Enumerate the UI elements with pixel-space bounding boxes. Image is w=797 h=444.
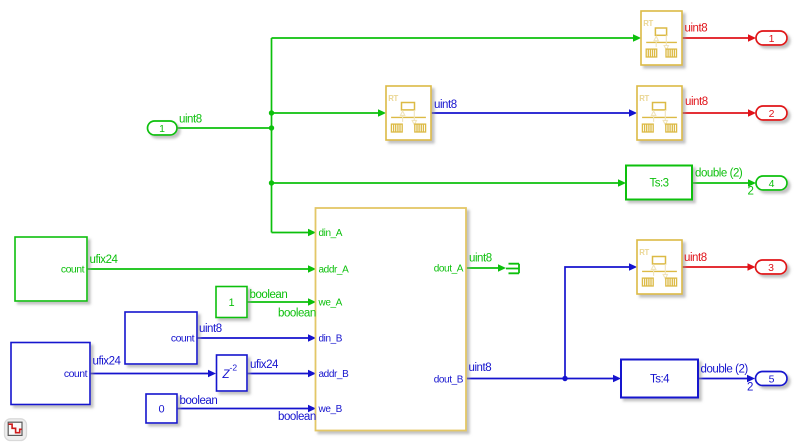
wire: dout_A stub xyxy=(466,267,499,269)
svg-text:ufix24: ufix24 xyxy=(93,356,122,368)
output port 4 oval xyxy=(756,176,787,190)
svg-text:boolean: boolean xyxy=(278,411,316,423)
svg-text:uint8: uint8 xyxy=(179,114,202,126)
svg-text:2: 2 xyxy=(769,108,775,120)
output port 5 oval xyxy=(756,372,788,386)
svg-text:uint8: uint8 xyxy=(469,362,492,374)
svg-text:1: 1 xyxy=(769,33,775,45)
svg-text:double (2): double (2) xyxy=(701,364,749,376)
svg-text:addr_B: addr_B xyxy=(319,369,350,380)
svg-text:boolean: boolean xyxy=(180,395,218,407)
wire: RT2 to port 2 (red) xyxy=(682,112,749,114)
wire: Ts:4 to port 5 xyxy=(698,378,748,380)
svg-text:uint8: uint8 xyxy=(434,99,457,111)
svg-text:din_B: din_B xyxy=(319,334,343,345)
junction dot trunk/RTmid xyxy=(269,110,274,115)
svg-text:1: 1 xyxy=(228,297,234,309)
terminator glyph dout_A xyxy=(506,264,519,274)
svg-text:count: count xyxy=(61,264,85,276)
svg-text:we_B: we_B xyxy=(318,404,343,415)
block: constant 1 xyxy=(216,287,247,318)
svg-text:uint8: uint8 xyxy=(684,252,707,264)
svg-text:-2: -2 xyxy=(230,363,238,373)
wire: blue count to din_B xyxy=(197,337,309,339)
svg-text:ufix24: ufix24 xyxy=(90,254,119,266)
block: dual port RAM xyxy=(316,208,467,431)
svg-text:boolean: boolean xyxy=(250,289,288,301)
wire: input port 1 to trunk xyxy=(177,127,272,129)
svg-text:count: count xyxy=(171,333,195,345)
output port 1 oval xyxy=(756,31,787,45)
svg-text:2: 2 xyxy=(748,186,754,198)
wire: RT3 to port 3 (red) xyxy=(682,266,748,268)
block: Ts:3 xyxy=(626,166,692,200)
wire: const 0 to we_B xyxy=(177,408,309,410)
block: constant 0 xyxy=(146,394,177,423)
wire: big count to delay xyxy=(90,373,209,375)
block: RT2 (rate transition) xyxy=(637,86,682,140)
wire: trunk elbow to din_A xyxy=(272,232,309,234)
block: green counter xyxy=(15,237,87,301)
wire: RT mid to RT2 (blue) xyxy=(431,112,630,114)
svg-text:addr_A: addr_A xyxy=(319,265,350,276)
wire: RT1 to port 1 (red) xyxy=(682,37,749,39)
svg-text:ufix24: ufix24 xyxy=(250,359,279,371)
svg-text:5: 5 xyxy=(769,374,775,386)
junction dot trunk/Ts3 xyxy=(269,180,274,185)
wire: delay to addr_B xyxy=(247,373,309,375)
junction dot trunk/input xyxy=(269,125,274,130)
block: big blue counter xyxy=(11,343,90,405)
svg-text:0: 0 xyxy=(158,404,164,416)
output port 3 oval xyxy=(756,260,787,274)
wire: trunk to Ts:3 xyxy=(272,182,619,184)
wire: dout_B to Ts:4 xyxy=(466,378,614,380)
block: blue counter xyxy=(125,312,197,364)
wire: dout_B branch up to RT3 xyxy=(565,267,630,379)
svg-text:uint8: uint8 xyxy=(685,23,708,35)
wire: const 1 to we_A xyxy=(247,301,309,303)
block: RT3 (rate transition) xyxy=(637,240,682,294)
output port 2 oval xyxy=(756,106,787,120)
wire: trunk top to RT1 xyxy=(272,37,634,39)
block: RT1 (rate transition) xyxy=(641,11,682,65)
svg-text:4: 4 xyxy=(769,178,775,190)
junction dot dout_B branch xyxy=(562,376,567,381)
svg-text:double (2): double (2) xyxy=(695,168,743,180)
svg-text:din_A: din_A xyxy=(319,228,343,239)
svg-text:count: count xyxy=(64,368,88,380)
svg-text:1: 1 xyxy=(159,123,165,135)
svg-text:we_A: we_A xyxy=(318,298,343,309)
input port 1 oval xyxy=(148,121,178,135)
block: RT mid (rate transition) xyxy=(386,86,431,140)
sample time legend button xyxy=(5,419,27,441)
svg-text:Ts:4: Ts:4 xyxy=(650,374,670,386)
wire: trunk to RT mid xyxy=(272,112,379,114)
wire: green trunk vertical x=271.5 xyxy=(271,38,273,233)
svg-text:3: 3 xyxy=(768,262,774,274)
svg-text:dout_A: dout_A xyxy=(434,264,464,275)
svg-text:2: 2 xyxy=(747,382,753,394)
svg-text:uint8: uint8 xyxy=(685,96,708,108)
svg-text:uint8: uint8 xyxy=(199,323,222,335)
svg-text:boolean: boolean xyxy=(278,308,316,320)
svg-text:Ts:3: Ts:3 xyxy=(649,178,668,190)
svg-text:dout_B: dout_B xyxy=(434,375,464,386)
block: delay Z^-2 xyxy=(217,355,248,391)
wire: green count to addr_A xyxy=(87,268,309,270)
block: Ts:4 xyxy=(621,360,698,398)
svg-text:uint8: uint8 xyxy=(469,253,492,265)
wire: Ts:3 to port 4 xyxy=(692,182,749,184)
